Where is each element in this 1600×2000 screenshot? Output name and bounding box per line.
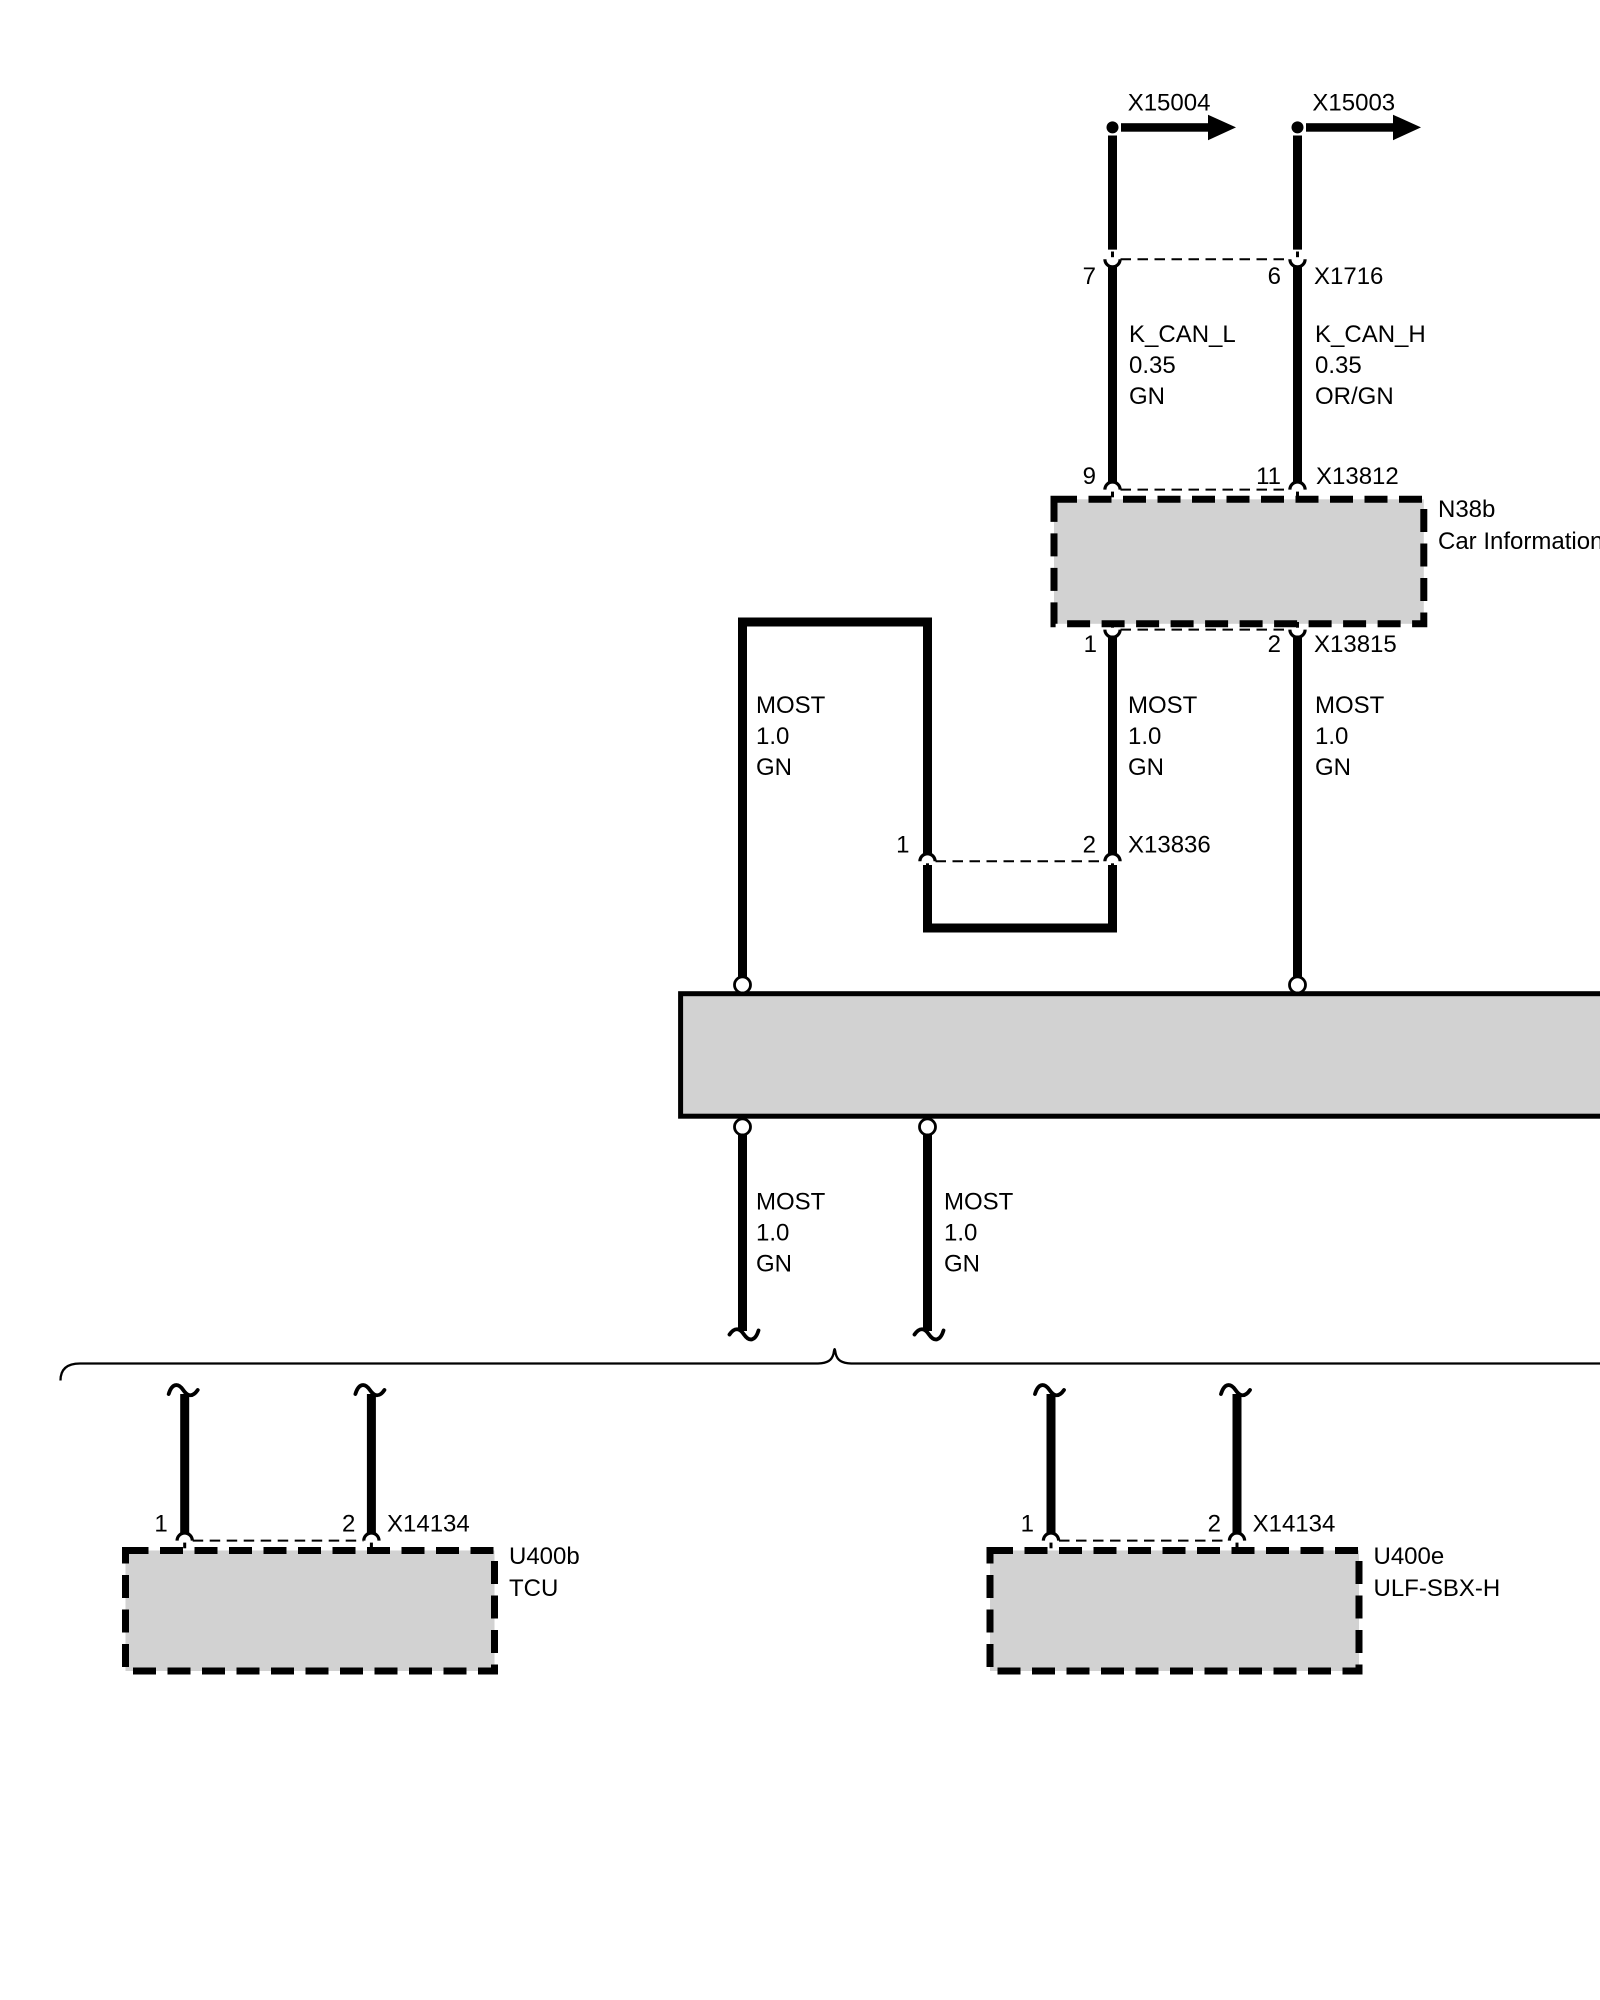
svg-text:X13836: X13836 xyxy=(1128,832,1211,859)
svg-text:1.0: 1.0 xyxy=(756,723,789,750)
svg-text:1.0: 1.0 xyxy=(1315,723,1348,750)
svg-text:GN: GN xyxy=(944,1251,980,1278)
svg-text:2: 2 xyxy=(1268,631,1281,658)
svg-text:MOST: MOST xyxy=(756,1189,826,1216)
svg-text:1: 1 xyxy=(896,832,909,859)
svg-text:K_CAN_H: K_CAN_H xyxy=(1315,321,1426,348)
svg-text:X14134: X14134 xyxy=(387,1511,470,1538)
svg-text:OR/GN: OR/GN xyxy=(1315,383,1394,410)
svg-text:GN: GN xyxy=(756,754,792,781)
svg-text:2: 2 xyxy=(1208,1511,1221,1538)
svg-text:X14134: X14134 xyxy=(1253,1511,1336,1538)
svg-text:X15003: X15003 xyxy=(1312,90,1395,117)
svg-text:9: 9 xyxy=(1083,463,1096,490)
svg-text:GN: GN xyxy=(1129,383,1165,410)
svg-text:0.35: 0.35 xyxy=(1129,352,1176,379)
svg-text:11: 11 xyxy=(1256,463,1281,490)
svg-text:2: 2 xyxy=(342,1511,355,1538)
svg-text:1.0: 1.0 xyxy=(1128,723,1161,750)
svg-text:X1716: X1716 xyxy=(1314,263,1383,290)
svg-text:2: 2 xyxy=(1083,832,1096,859)
svg-text:GN: GN xyxy=(756,1251,792,1278)
svg-text:1: 1 xyxy=(154,1511,167,1538)
svg-text:X13815: X13815 xyxy=(1314,631,1397,658)
svg-text:6: 6 xyxy=(1268,263,1281,290)
svg-text:7: 7 xyxy=(1083,263,1096,290)
svg-text:1: 1 xyxy=(1084,631,1097,658)
svg-text:Car Information: Car Information xyxy=(1438,528,1600,555)
svg-text:X15004: X15004 xyxy=(1128,90,1211,117)
svg-text:X13812: X13812 xyxy=(1316,463,1399,490)
svg-text:K_CAN_L: K_CAN_L xyxy=(1129,321,1236,348)
svg-text:TCU: TCU xyxy=(509,1575,558,1602)
svg-text:MOST: MOST xyxy=(944,1189,1014,1216)
svg-text:GN: GN xyxy=(1315,754,1351,781)
svg-text:1.0: 1.0 xyxy=(756,1220,789,1247)
svg-text:GN: GN xyxy=(1128,754,1164,781)
svg-text:0.35: 0.35 xyxy=(1315,352,1362,379)
svg-text:N38b: N38b xyxy=(1438,496,1495,523)
svg-text:MOST: MOST xyxy=(1315,692,1385,719)
svg-text:U400b: U400b xyxy=(509,1543,580,1570)
svg-text:U400e: U400e xyxy=(1374,1543,1445,1570)
svg-text:MOST: MOST xyxy=(756,692,826,719)
svg-text:1.0: 1.0 xyxy=(944,1220,977,1247)
svg-text:MOST: MOST xyxy=(1128,692,1198,719)
svg-text:ULF-SBX-H: ULF-SBX-H xyxy=(1374,1575,1501,1602)
svg-text:1: 1 xyxy=(1021,1511,1034,1538)
